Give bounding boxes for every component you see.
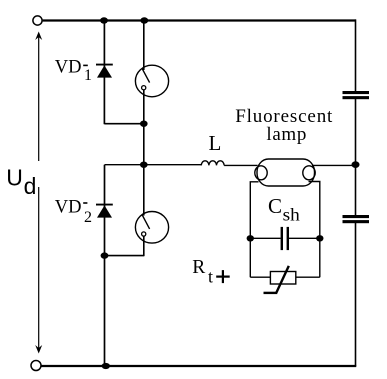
svg-text:sh: sh (283, 205, 300, 225)
wire connector VD1 to switch branch (104, 123, 143, 125)
junction dot node C (101, 252, 109, 258)
inductor L (201, 161, 224, 166)
junction dot top switch branch (140, 17, 148, 23)
wire right bus upper (355, 19, 357, 91)
Ud arrow (voltage measurement, double-headed) (35, 32, 42, 354)
wire switch branch upper (143, 21, 145, 71)
wire bottom bus (42, 365, 357, 367)
wire Rt left (250, 276, 270, 278)
terminal top-left (33, 16, 42, 25)
junction dot Csh left (247, 235, 254, 241)
wire top bus (43, 19, 356, 21)
svg-text:VD: VD (55, 58, 82, 78)
diode VD1 (96, 65, 113, 78)
wire right bus lower (355, 223, 357, 367)
switch S1 (electronic key, circle) (135, 65, 168, 97)
capacitor Csh (281, 227, 289, 250)
wire lamp left lead down (250, 182, 258, 277)
label Rt+ (192, 257, 229, 287)
thermistor diagonal stroke (276, 266, 289, 293)
svg-text:R: R (192, 257, 205, 278)
svg-text:C: C (268, 194, 282, 218)
svg-text:U: U (6, 165, 23, 191)
svg-text:lamp: lamp (266, 124, 307, 145)
thermistor foot (264, 292, 278, 294)
junction dot Csh right (316, 235, 323, 241)
lamp electrode left (255, 166, 267, 180)
wire connector switch to VD2 branch (105, 255, 144, 257)
svg-text:2: 2 (84, 209, 92, 226)
wire Csh right (289, 237, 320, 239)
wire switch branch middle (143, 90, 145, 216)
wire Csh left (250, 237, 280, 239)
svg-text:1: 1 (84, 67, 92, 84)
junction dot right bus (352, 161, 360, 168)
svg-text:L: L (209, 131, 222, 155)
svg-text:t: t (208, 266, 213, 286)
fluorescent lamp tube (257, 159, 315, 186)
label VD1 (55, 58, 92, 84)
lamp electrode right (303, 166, 315, 180)
label Fluorescent lamp (235, 106, 333, 145)
wire mid (to inductor) (105, 164, 202, 166)
thermistor Rt body (270, 272, 295, 285)
wire lamp to right bus (312, 164, 356, 166)
capacitor C1 (right bus upper) (343, 91, 370, 99)
svg-text:d: d (24, 173, 37, 199)
capacitor C2 (right bus lower) (343, 215, 370, 223)
switch S2 (electronic key, circle) (135, 212, 168, 244)
svg-text:VD: VD (55, 198, 82, 218)
wire Rt right (296, 276, 320, 278)
junction dot top VD1 (100, 17, 108, 23)
junction dot node A (140, 121, 148, 127)
wire inductor to lamp (224, 164, 258, 166)
junction dot bottom bus (102, 363, 110, 369)
wire switch branch lower (143, 236, 145, 256)
terminal bottom-left (31, 361, 41, 371)
wire VD2 branch (104, 165, 106, 366)
wire right bus middle (355, 99, 357, 215)
label Csh (268, 194, 300, 224)
wire lamp right lead down (309, 182, 320, 278)
diode VD2 (96, 205, 113, 218)
wire VD1 branch (103, 21, 105, 125)
label VD2 (55, 198, 92, 226)
label Ud (6, 165, 36, 200)
junction dot node B (mid wire) (140, 162, 148, 168)
